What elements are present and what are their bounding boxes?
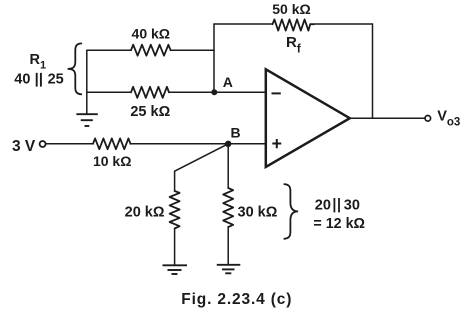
wire 30k to ground [227,227,229,265]
resistor R 20k zigzag [170,191,180,229]
resistor R 40k zigzag [131,45,171,56]
wire feedback top left segment [214,23,273,25]
ground under 20k [163,265,188,274]
wire 20k top [174,171,176,191]
resistor Rf 50k zigzag [273,19,315,30]
wire feedback left leg [213,24,215,92]
svg-text:3 V: 3 V [12,138,36,155]
wire node A to op-amp [214,91,265,93]
resistor R 10k zigzag [93,138,131,149]
svg-text:20 kΩ: 20 kΩ [125,205,165,221]
wire node B down to 30k [227,144,229,188]
svg-text:30 kΩ: 30 kΩ [238,205,278,221]
svg-text:50 kΩ: 50 kΩ [272,1,310,17]
wire 3V terminal to 10k [46,143,93,145]
wire left column [86,50,88,114]
wire feedback right leg [372,24,374,118]
svg-text:25 kΩ: 25 kΩ [130,104,170,120]
ground under 30k [217,265,241,274]
resistor R 30k zigzag [223,188,233,227]
op-amp U1 triangle [266,69,350,167]
wire 40k row right [171,49,214,51]
svg-text:40: 40 [14,71,30,87]
wire feedback top right segment [314,23,373,25]
svg-text:Rf: Rf [286,34,301,56]
wire 10k to node B to op-amp [131,143,266,145]
svg-text:25: 25 [48,71,64,87]
wire op-amp output [350,117,425,119]
svg-text:A: A [223,74,233,90]
svg-text:= 12 kΩ: = 12 kΩ [313,216,365,232]
brace left for R1 [68,43,82,94]
svg-text:40 kΩ: 40 kΩ [132,25,170,41]
wire 25k row right to node A [169,91,214,93]
op-amp plus input sign [272,139,281,148]
node A junction dot [211,89,217,95]
terminal 3V open circle [40,141,46,147]
wire 40k row left [87,49,131,51]
svg-text:B: B [231,125,241,141]
svg-text:R1: R1 [30,52,47,72]
terminal Vo3 open circle [425,116,431,122]
wire 25k row left [87,91,131,93]
wire node B diagonal to 20k [175,144,229,171]
wire 20k to ground [174,229,176,266]
svg-text:Vo3: Vo3 [437,109,460,129]
node B junction dot [225,141,231,147]
brace right for 20||30 [284,184,298,239]
op-amp minus input sign [272,92,281,94]
ground left under R1 [76,114,97,126]
svg-text:Fig. 2.23.4 (c): Fig. 2.23.4 (c) [181,291,292,308]
svg-text:30: 30 [344,197,360,213]
svg-text:20: 20 [315,197,331,213]
resistor R 25k zigzag [131,87,169,98]
svg-text:10 kΩ: 10 kΩ [93,153,131,169]
